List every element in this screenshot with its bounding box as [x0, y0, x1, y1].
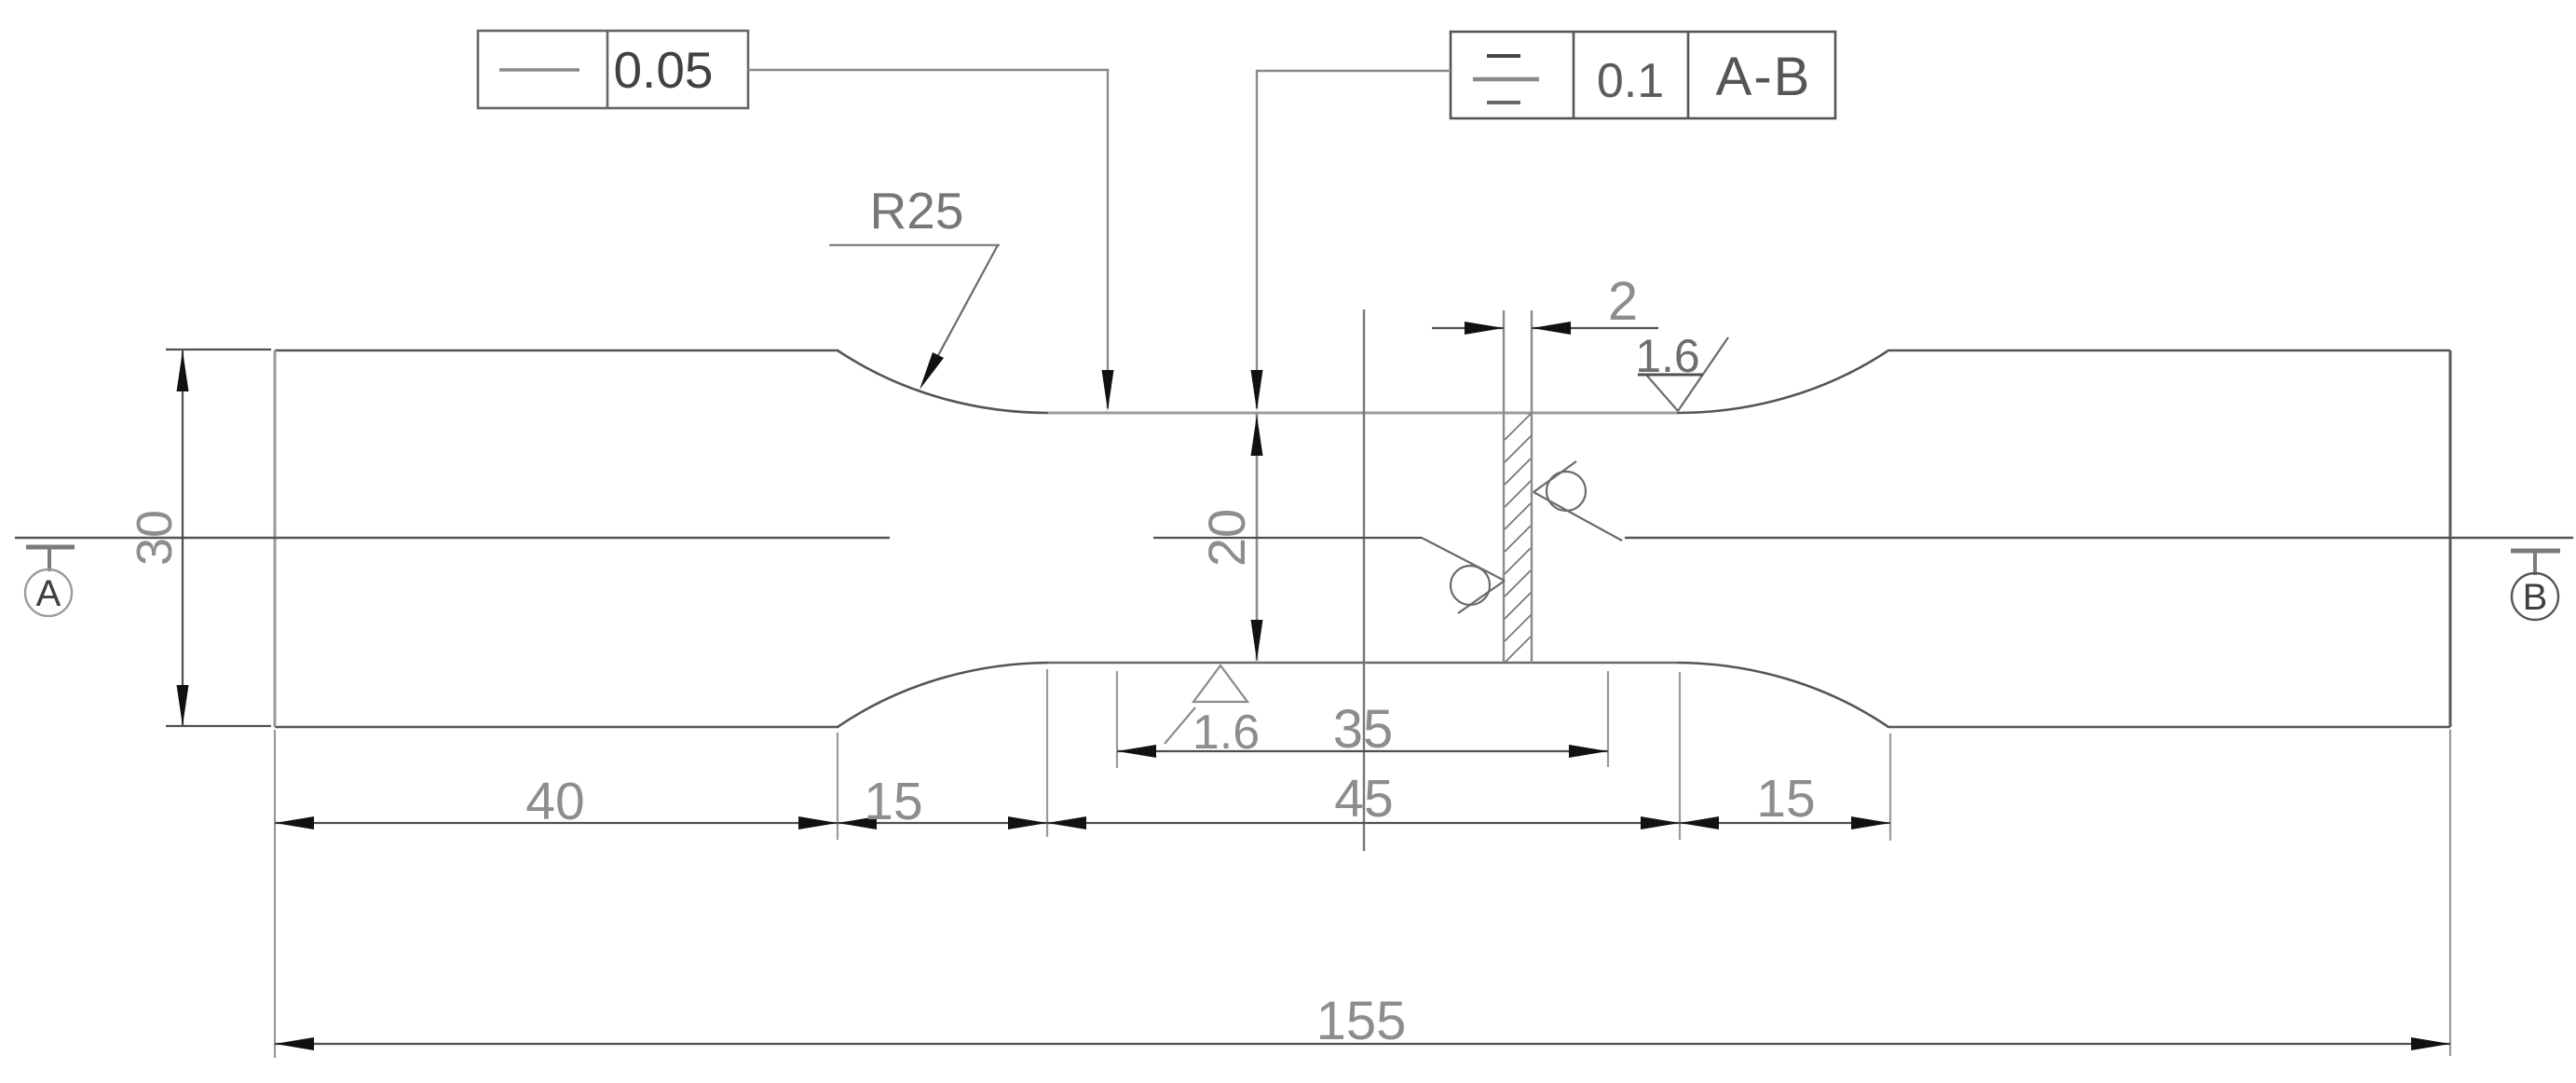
feature control frame 0.1 A-B (symmetry) [1451, 32, 1835, 118]
datum B [2511, 551, 2560, 620]
svg-text:45: 45 [1334, 769, 1393, 829]
roughness symbol 1.6 (top right, on neck line) [1638, 337, 1728, 411]
dimension row 40 / 15 / 45 / 15 [275, 822, 1890, 824]
svg-text:A-B: A-B [1716, 47, 1812, 107]
dimension 20 (neck) [1256, 413, 1259, 661]
svg-text:15: 15 [1756, 769, 1815, 829]
svg-text:30: 30 [127, 510, 183, 566]
datum A [25, 547, 75, 616]
svg-text:A: A [36, 573, 61, 614]
feature control frame 0.05 (straightness) [478, 31, 748, 108]
svg-text:B: B [2523, 577, 2548, 618]
centerline [15, 537, 2573, 539]
dimension 155 [275, 1043, 2450, 1045]
leader from 0.1 frame [1257, 71, 1451, 408]
dimension 2 (strip width) [1432, 327, 1658, 329]
svg-text:155: 155 [1316, 991, 1407, 1051]
center mark line [1363, 309, 1365, 851]
svg-text:15: 15 [864, 772, 922, 831]
svg-text:1.6: 1.6 [1635, 330, 1700, 382]
part outline (dog-bone specimen) [275, 350, 2450, 727]
extension lines bottom dims [275, 669, 2450, 1058]
roughness circle symbol (right of strip) [1533, 461, 1622, 541]
dimension 30 (left) [166, 350, 271, 726]
svg-text:40: 40 [525, 772, 584, 831]
svg-text:0.1: 0.1 [1597, 54, 1664, 108]
dimension 35 [1117, 750, 1608, 752]
svg-text:0.05: 0.05 [613, 41, 713, 99]
leader from 0.05 frame [748, 70, 1108, 408]
svg-text:35: 35 [1333, 699, 1394, 760]
section strip (2 wide) with hatch [1504, 310, 1532, 663]
svg-text:R25: R25 [870, 182, 964, 240]
roughness circle symbol (left of strip) [1153, 538, 1505, 613]
machining triangle with 1.6 (bottom neck) [1165, 665, 1247, 744]
svg-text:2: 2 [1608, 271, 1638, 332]
